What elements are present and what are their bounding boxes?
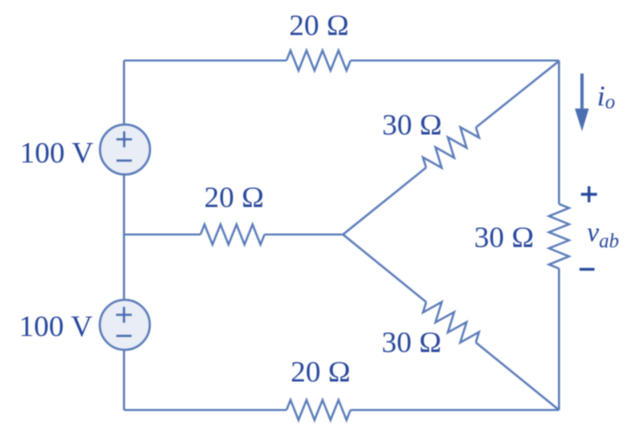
plus sign vab bbox=[580, 186, 598, 269]
resistor R-upperdiag 30ohm zigzag bbox=[423, 127, 479, 168]
wire lower diagonal upper part bbox=[343, 235, 426, 303]
voltage source VS2 circle bbox=[100, 300, 150, 350]
resistor R-mid 20ohm zigzag bbox=[201, 225, 265, 245]
resistor R-bottom 20ohm zigzag bbox=[287, 400, 351, 420]
wire bottom left bbox=[124, 409, 287, 411]
svg-text:30 Ω: 30 Ω bbox=[382, 109, 442, 142]
svg-text:100 V: 100 V bbox=[19, 310, 93, 343]
minus sign vab bbox=[580, 268, 595, 271]
resistor R-right 30ohm zigzag bbox=[549, 204, 569, 269]
wire middle left bbox=[124, 233, 201, 235]
wire upper diagonal upper part bbox=[476, 61, 559, 127]
svg-text:30 Ω: 30 Ω bbox=[382, 326, 442, 359]
wire left between sources bbox=[123, 175, 125, 300]
VS2 minus sign bbox=[116, 335, 131, 337]
svg-text:vab: vab bbox=[587, 217, 619, 253]
svg-text:20 Ω: 20 Ω bbox=[204, 181, 264, 214]
wire top bbox=[124, 59, 287, 61]
VS1 plus sign bbox=[116, 131, 132, 147]
wire top right bbox=[351, 59, 560, 61]
svg-text:20 Ω: 20 Ω bbox=[289, 9, 349, 42]
current arrow io bbox=[576, 74, 589, 130]
svg-text:io: io bbox=[597, 81, 615, 114]
svg-text:20 Ω: 20 Ω bbox=[291, 356, 351, 389]
wire bottom right bbox=[351, 409, 560, 411]
wire left below VS2 bbox=[123, 350, 125, 410]
resistor R-lowerdiag 30ohm zigzag bbox=[423, 302, 479, 343]
svg-text:100 V: 100 V bbox=[20, 137, 94, 170]
VS1 minus sign bbox=[117, 160, 132, 162]
wire right upper bbox=[558, 61, 560, 205]
wire left above VS1 bbox=[123, 61, 125, 125]
wire lower diagonal lower part bbox=[476, 342, 559, 410]
voltage source VS1 circle bbox=[100, 125, 150, 175]
resistor R-top 20ohm zigzag bbox=[287, 51, 351, 71]
wire right lower bbox=[558, 269, 560, 411]
wire upper diagonal lower part bbox=[343, 168, 426, 235]
svg-text:30 Ω: 30 Ω bbox=[474, 221, 534, 254]
wire middle right to junction bbox=[265, 233, 344, 235]
VS2 plus sign bbox=[116, 307, 132, 323]
